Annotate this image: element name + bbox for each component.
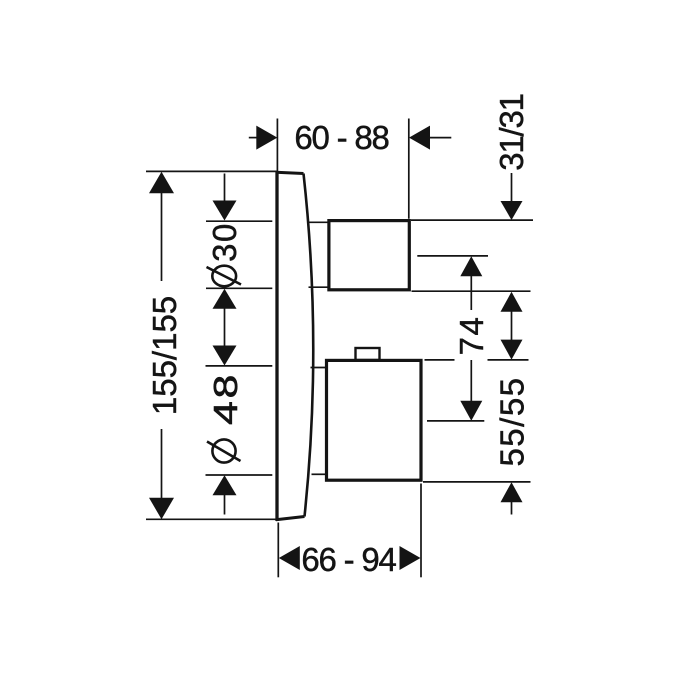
dimension 60-88: extension lines [277,119,408,219]
dimension d30: arrows and label [206,174,243,366]
dimension 74: arrows and label [453,256,490,421]
top handle body [329,221,409,290]
escutcheon plate (side view) [276,171,313,521]
dimension 31/31: arrows and label [493,94,530,359]
dimension 55/55: arrow and label [494,376,531,514]
svg-text:55/55: 55/55 [494,376,531,466]
svg-text:48: 48 [208,372,245,425]
svg-text:74: 74 [453,316,490,356]
bottom handle top reference line [425,359,529,361]
dimension d48: arrow and label [207,372,245,514]
dimension 155/155: dimension line, arrows, label [146,172,183,519]
svg-text:30: 30 [206,222,243,262]
bottom handle body [327,360,422,480]
handle bottom reference line [412,290,531,292]
svg-text:60 - 88: 60 - 88 [294,119,388,156]
bottom handle lower reference line [423,481,531,483]
svg-text:155/155: 155/155 [146,296,183,415]
dimension 66-94: extension lines [278,484,421,578]
top handle stem [308,222,329,287]
svg-text:66 - 94: 66 - 94 [301,541,396,578]
dimension 155/155: extension lines [146,171,277,519]
handle top reference line [411,219,533,221]
dimension 60-88: dimension line, arrows, label [249,119,451,156]
bottom handle stem [311,368,328,475]
bottom handle axis line [427,420,484,422]
dimension d30: extension lines [206,221,272,288]
safety-stop tab on bottom handle [356,348,380,360]
dimension d48: extension lines [206,366,273,475]
svg-text:31/31: 31/31 [493,94,530,171]
dimension 66-94: arrows and label [279,541,421,578]
top handle axis line [417,255,488,257]
